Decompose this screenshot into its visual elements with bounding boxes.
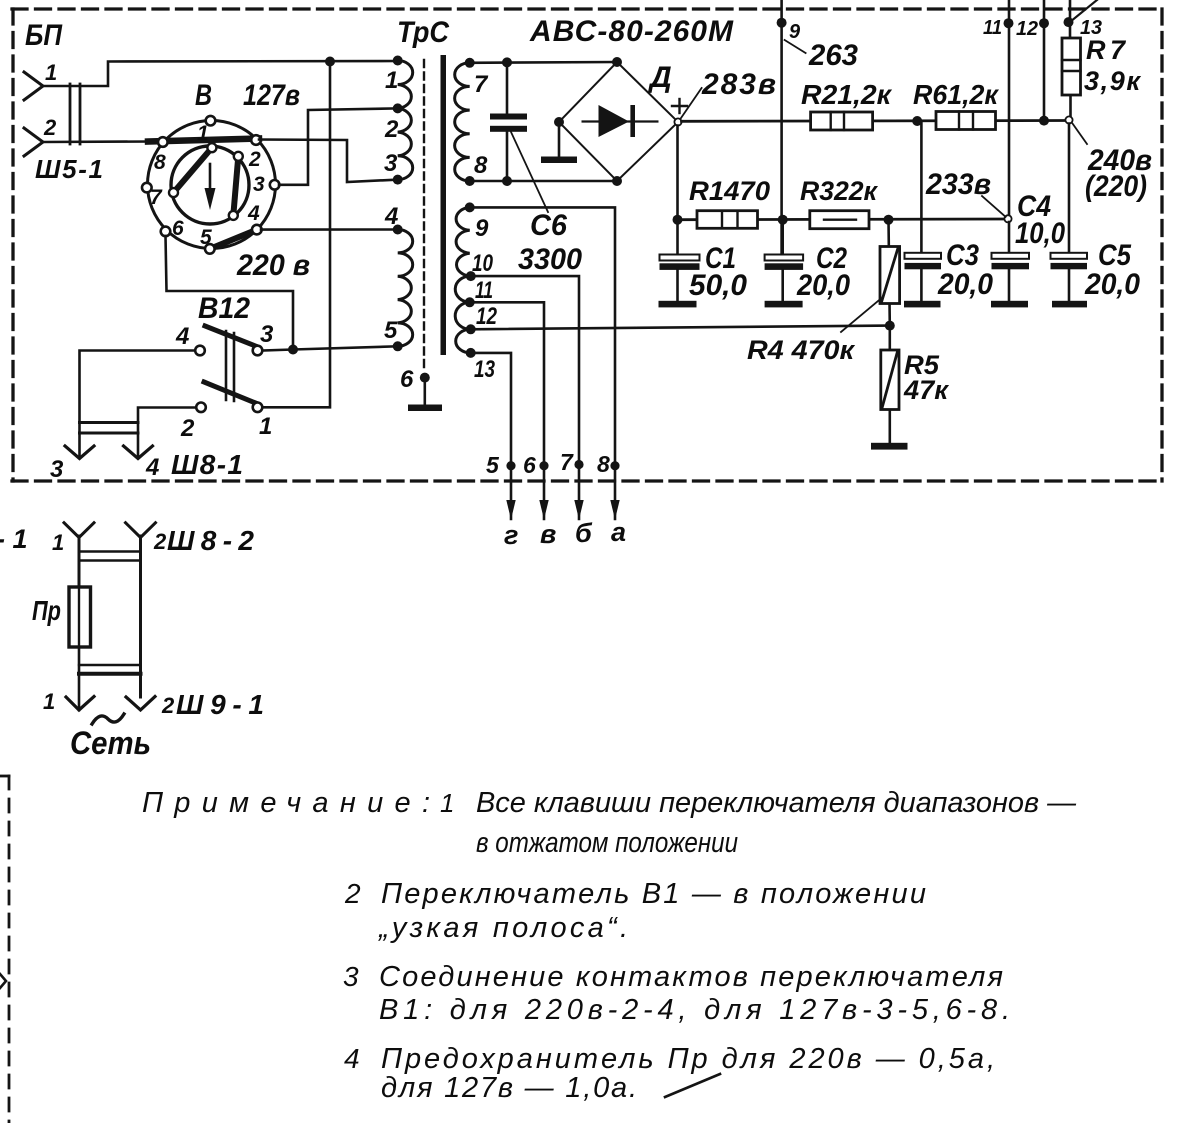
switch B bridging bar 8-2 [148, 139, 259, 142]
283в pointer [681, 88, 702, 118]
wire terminal 8 to bridge bottom [470, 180, 617, 183]
svg-text:7: 7 [560, 449, 574, 475]
svg-text:220 в: 220 в [236, 249, 310, 282]
wire B12 contact 3 to transformer terminal 5 [262, 346, 398, 350]
svg-text:Пр: Пр [32, 595, 61, 626]
switch B12 contact 4 [195, 346, 205, 356]
connector Ш8-1 pin 4 arrow [124, 446, 153, 459]
svg-text:Переключатель В1 — в положении: Переключатель В1 — в положении [381, 878, 926, 910]
switch B outer contact 8 [158, 137, 168, 147]
wire terminal 13 down to output [471, 353, 511, 519]
switch B inner contact upper-right [234, 152, 243, 161]
switch B inner contact bottom [229, 211, 238, 220]
svg-text:В12: В12 [198, 292, 250, 325]
capacitor C2 [765, 220, 804, 308]
rotary switch B outer circle [148, 121, 276, 249]
output line dots [506, 461, 515, 470]
svg-text:4: 4 [344, 1043, 360, 1074]
cable marker Ш5-1 [70, 84, 80, 144]
svg-text:3: 3 [343, 961, 359, 992]
switch B contact labels [150, 122, 265, 249]
svg-text:13: 13 [474, 356, 496, 383]
svg-text:8: 8 [154, 151, 166, 174]
resistor R6 [936, 112, 996, 130]
ground under terminal 6 [408, 378, 442, 411]
resistor R3 [810, 211, 869, 229]
svg-text:БП: БП [25, 19, 63, 52]
switch B bar 5-4 [210, 230, 257, 249]
cable marker Ш8-1 [80, 423, 139, 434]
switch B outer contact 6 [161, 227, 171, 237]
svg-text:4: 4 [247, 202, 260, 225]
svg-text:Соединение контактов переключа: Соединение контактов переключателя [379, 961, 1003, 993]
svg-text:Все клавиши переключателя диап: Все клавиши переключателя диапазонов — [476, 787, 1077, 819]
switch B12 contact 1 [253, 403, 263, 413]
switch B outer contact 1 [206, 116, 216, 126]
wire pin2 to switch contact 8 [43, 140, 152, 143]
resistor R2 [811, 112, 873, 130]
svg-text:47к: 47к [903, 375, 949, 405]
note tail dash [665, 1074, 720, 1097]
svg-text:6: 6 [400, 366, 414, 393]
switch B12 contact labels [175, 321, 274, 442]
junction dot C2 net 263 [778, 215, 788, 225]
svg-text:- 1: - 1 [0, 524, 28, 554]
svg-text:R322к: R322к [800, 176, 878, 206]
transformer secondary winding 12-13 [456, 329, 471, 353]
svg-text:127в: 127в [243, 79, 300, 112]
svg-text:12: 12 [1016, 18, 1038, 40]
svg-text:233в: 233в [925, 168, 991, 201]
svg-text:2: 2 [180, 415, 195, 442]
svg-text:4: 4 [175, 323, 189, 350]
node dot on line 13 [1064, 17, 1074, 27]
svg-text:3: 3 [50, 456, 64, 483]
svg-text:50,0: 50,0 [689, 269, 747, 302]
node dot on line 11 [1004, 18, 1014, 28]
svg-text:8: 8 [474, 152, 488, 179]
wire 12 line from top to bus [1043, 0, 1046, 121]
resistor R4 [880, 220, 900, 326]
svg-text:3: 3 [384, 150, 398, 177]
svg-text:б: б [575, 518, 593, 548]
switch B inner bar top-left [174, 148, 212, 193]
switch B outer contact 5 [205, 244, 215, 254]
svg-text:АВС-80-260М: АВС-80-260М [529, 15, 734, 48]
cable marker Ш8-2 [79, 552, 141, 561]
svg-text:20,0: 20,0 [1084, 268, 1140, 301]
wire contact 4 to transformer terminal 4 [261, 228, 398, 231]
svg-text:8: 8 [597, 451, 610, 477]
capacitor C6 [490, 62, 527, 181]
connector Ш8-2 pin 2 fork [126, 523, 156, 697]
svg-text:R21,2к: R21,2к [801, 79, 893, 110]
wire fuse to Ш9-1 pin 1 [78, 647, 81, 710]
svg-text:2: 2 [248, 148, 261, 171]
svg-text:Д: Д [647, 61, 672, 94]
connector Ш5-1 pin 2 [24, 128, 43, 156]
transformer screen terminal 6 [420, 373, 430, 383]
plus sign [672, 99, 687, 113]
wire junction to B12 contact 1 [262, 62, 330, 408]
wire 240в node down to C5 [1068, 124, 1071, 254]
junction dot R2-R6 [912, 116, 922, 126]
svg-text:Ш5-1: Ш5-1 [35, 154, 103, 184]
switch B outer contact 3 [270, 180, 280, 190]
node junction [288, 345, 298, 355]
connector Ш9-1 pin 2 arrow [126, 697, 155, 711]
svg-text:20,0: 20,0 [937, 268, 993, 301]
capacitor C5 [1051, 253, 1088, 308]
svg-text:9: 9 [789, 21, 801, 43]
junction dot R4-R5 [885, 321, 895, 331]
transformer secondary winding 7-8 [455, 63, 470, 181]
svg-text:Ш8-2: Ш8-2 [167, 525, 254, 556]
transformer secondary winding 10-11 [455, 276, 471, 302]
switch B rotor arrow [205, 164, 216, 210]
svg-text:3,9к: 3,9к [1084, 66, 1141, 96]
wire 263 line from top [780, 0, 783, 254]
svg-text:4: 4 [145, 454, 159, 481]
svg-text:(220): (220) [1085, 170, 1147, 203]
transformer primary terminal labels [384, 67, 399, 344]
svg-text:ТрС: ТрС [397, 16, 450, 49]
connector Ш8-2 pin 1 fork [64, 523, 94, 587]
svg-text:2: 2 [43, 115, 57, 140]
svg-text:1: 1 [45, 60, 57, 85]
svg-text:В1: для 220в-2-4, для 127в-3-5: В1: для 220в-2-4, для 127в-3-5,6-8. [379, 994, 1010, 1026]
svg-text:В: В [195, 79, 212, 112]
svg-text:283в: 283в [701, 68, 776, 101]
svg-text:3: 3 [253, 173, 265, 196]
wire pin1 to transformer terminal 1 [43, 61, 398, 86]
wire B12 contact 4 to Ш8-1 pin 3 [80, 351, 196, 458]
svg-text:6: 6 [172, 217, 184, 240]
transformer secondary winding 11-12 [455, 302, 471, 329]
svg-text:7: 7 [474, 71, 489, 98]
junction dot R3-R4 [884, 215, 894, 225]
C6 label pointer [511, 132, 548, 212]
wire bar end to transformer terminal 3 [259, 140, 398, 183]
cable marker Ш9-1 [79, 665, 141, 674]
rotary switch B inner circle [171, 146, 249, 224]
wire terminal 7 to bridge top [470, 61, 617, 64]
svg-text:2: 2 [161, 693, 175, 718]
svg-text:R7: R7 [1086, 35, 1127, 65]
transformer secondary terminal labels [472, 71, 498, 383]
svg-text:а: а [611, 517, 626, 547]
svg-text:1: 1 [259, 413, 272, 440]
263 pointer [785, 40, 806, 53]
capacitor C3 [904, 253, 941, 308]
node junction on top wire [325, 57, 335, 67]
resistor R5 [881, 326, 899, 443]
240в pointer [1073, 124, 1088, 145]
transformer core [441, 55, 447, 355]
svg-text:11: 11 [475, 277, 493, 304]
output pin labels 5 6 7 8 [486, 449, 610, 478]
connector Ш8-1 pin 3 arrow [65, 446, 94, 459]
diagonal wire to top corner [1070, 0, 1097, 22]
svg-text:в отжатом положении: в отжатом положении [476, 827, 738, 859]
svg-text:11: 11 [983, 17, 1002, 39]
node 233в ring [1004, 215, 1011, 222]
capacitor C4 [991, 222, 1029, 307]
svg-text:1: 1 [440, 788, 454, 818]
svg-text:10: 10 [472, 250, 494, 277]
transformer screen dashed line [423, 60, 425, 372]
svg-text:7: 7 [150, 186, 163, 209]
switch B12 mechanical link [226, 331, 234, 401]
transformer primary winding 4-5 [398, 230, 413, 347]
diode symbol inside bridge [583, 105, 658, 137]
svg-text:в: в [540, 519, 556, 549]
svg-text:9: 9 [475, 215, 489, 242]
wire terminal 10 down to output б [471, 276, 579, 519]
resistor R7 [1062, 38, 1081, 117]
switch B outer contact 2 [251, 135, 261, 145]
output node 283в ring [674, 118, 681, 125]
svg-text:20,0: 20,0 [796, 269, 850, 302]
233в pointer [982, 196, 1006, 217]
svg-text:R4 470к: R4 470к [747, 335, 855, 365]
wire contact 3 to transformer terminal 2 [279, 108, 398, 184]
transformer terminal dots primary [393, 56, 403, 66]
rectifier bridge Д diamond [559, 62, 678, 181]
svg-text:Ш8-1: Ш8-1 [171, 449, 243, 480]
adjacent block dashed corner bottom-left [0, 776, 9, 1123]
notes text [142, 787, 1077, 1104]
connector Ш9-1 pin 1 arrow [66, 697, 94, 711]
svg-text:для 127в — 1,0а.: для 127в — 1,0а. [381, 1072, 637, 1104]
wire 11 line from top to 233в node [1008, 0, 1011, 216]
transformer primary winding 1-2 [398, 61, 413, 109]
svg-text:3300: 3300 [518, 243, 582, 276]
switch B12 contact 3 [253, 346, 263, 356]
fuse Пр [69, 587, 91, 647]
wire terminal 9 down to output г [470, 207, 615, 519]
tilde AC sign [92, 714, 124, 724]
wire 13 line from top to R7 [1069, 0, 1072, 38]
connector Ш5-1 pin 1 [24, 72, 43, 100]
wire B12 contact 2 to Ш8-1 pin 4 [138, 408, 196, 458]
svg-text:12: 12 [476, 303, 498, 330]
small mark at left edge [0, 974, 6, 988]
ground under bridge minus [541, 122, 577, 163]
svg-text:1: 1 [385, 67, 398, 94]
node junction C6 top [502, 57, 512, 67]
svg-text:5: 5 [486, 452, 500, 478]
svg-text:R1470: R1470 [689, 176, 770, 206]
wire terminal 12 to R4-R5 junction [471, 326, 890, 330]
svg-text:4: 4 [384, 203, 398, 230]
bridge vertex dots [612, 57, 622, 67]
svg-text:2: 2 [153, 529, 167, 554]
svg-text:2: 2 [384, 116, 399, 143]
switch B12 blade upper [205, 326, 258, 347]
svg-text:1: 1 [197, 122, 209, 145]
capacitor C1 [659, 220, 700, 308]
junction dot C1 [673, 215, 683, 225]
R4 label pointer [841, 299, 881, 333]
ground under R5 [871, 443, 908, 450]
transformer terminal dots secondary [465, 58, 475, 68]
svg-text:1: 1 [43, 689, 55, 714]
switch B inner contact left [169, 188, 178, 197]
svg-text:Ш9-1: Ш9-1 [176, 689, 264, 720]
resistor R1 [697, 211, 758, 229]
power-supply block dashed boundary БП [12, 9, 1163, 481]
switch B outer contact 4 [252, 225, 262, 235]
node dot 9 [777, 18, 787, 28]
wire R2-R6 junction down to C3 [920, 121, 923, 253]
wire bridge output down to R1 bus [676, 126, 679, 220]
node 240в ring [1065, 116, 1072, 123]
switch B12 contact 2 [196, 403, 206, 413]
output arrowheads [506, 500, 515, 520]
svg-text:Примечание:: Примечание: [142, 787, 430, 819]
switch B inner contact top [207, 143, 216, 152]
transformer secondary winding 9-10 [456, 207, 471, 276]
svg-text:Предохранитель Пр для 220в — 0: Предохранитель Пр для 220в — 0,5а, [381, 1043, 995, 1075]
switch B12 blade lower [204, 382, 258, 404]
svg-text:3: 3 [260, 321, 274, 348]
lower bus 283в-233в [678, 218, 1006, 221]
svg-text:1: 1 [52, 530, 64, 555]
junction dot bus x1044 [1039, 116, 1049, 126]
svg-text:6: 6 [523, 452, 536, 478]
switch B inner bar right [233, 156, 238, 215]
node dot on line 12 [1039, 18, 1049, 28]
svg-text:5: 5 [200, 226, 212, 249]
node junction C6 bottom [502, 176, 512, 186]
svg-text:263: 263 [808, 39, 858, 72]
transformer primary winding 2-3 [398, 108, 413, 179]
svg-text:„узкая полоса“.: „узкая полоса“. [378, 912, 628, 944]
svg-text:2: 2 [344, 878, 361, 909]
svg-text:г: г [504, 520, 518, 550]
svg-text:С6: С6 [530, 209, 567, 242]
svg-text:R61,2к: R61,2к [913, 79, 1000, 110]
switch B outer contact 7 [142, 183, 152, 193]
main bus 283в-240в [682, 119, 1067, 123]
wire contact 6 to junction [166, 236, 294, 350]
svg-text:Сеть: Сеть [70, 725, 151, 761]
output net labels г в б а [504, 517, 626, 550]
svg-text:10,0: 10,0 [1015, 217, 1065, 250]
wire terminal 11 down to output в [470, 302, 544, 519]
svg-text:5: 5 [384, 317, 398, 344]
